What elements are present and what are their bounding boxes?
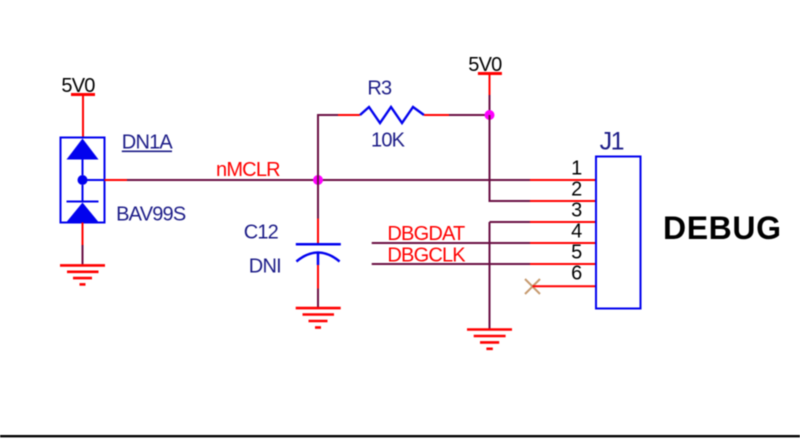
- pin stub J1 pin2: [530, 200, 596, 202]
- diode D2 bottom with cathode bar: [67, 180, 105, 222]
- wire nMCLR horizontal: [127, 179, 530, 181]
- pin stub J1 pin1: [530, 179, 596, 181]
- svg-text:1: 1: [571, 157, 582, 179]
- diode DN1A body box: [61, 138, 105, 223]
- svg-text:DBGCLK: DBGCLK: [387, 244, 466, 266]
- pin stub C12 top: [317, 219, 319, 244]
- svg-text:DBGDAT: DBGDAT: [387, 223, 465, 245]
- svg-text:DNI: DNI: [249, 255, 281, 277]
- svg-text:2: 2: [571, 178, 582, 200]
- svg-text:BAV99S: BAV99S: [116, 204, 186, 226]
- pin stub J1 pin6: [533, 285, 597, 287]
- wire junction down to C12: [317, 180, 319, 219]
- svg-text:4: 4: [571, 220, 582, 242]
- junction node nMCLR: [313, 175, 323, 185]
- wire DBGCLK: [372, 263, 530, 265]
- capacitor C12 top plate: [296, 243, 341, 246]
- diode D1 top (anode up to 5V0): [67, 139, 99, 176]
- connector J1 box: [596, 157, 641, 309]
- diode internal junction dot: [78, 175, 88, 185]
- label DN1A: [122, 131, 174, 153]
- pin stub diode bottom: [82, 223, 84, 246]
- pin stub C12 bottom: [317, 265, 319, 289]
- wire R3 right to junction: [449, 114, 490, 116]
- wire diode bottom to ground: [82, 245, 84, 264]
- svg-text:6: 6: [571, 262, 582, 284]
- ground (below diode): [60, 265, 105, 284]
- svg-text:5: 5: [571, 241, 582, 263]
- wire pin3 corner down to ground: [490, 222, 531, 329]
- svg-text:nMCLR: nMCLR: [216, 159, 280, 181]
- pin stub J1 pin3: [530, 221, 596, 223]
- wire 5V0 down to junction: [489, 95, 491, 115]
- junction node 5V0: [485, 110, 495, 120]
- pin stub J1 pin5: [530, 263, 596, 265]
- capacitor C12 bottom blue stub: [317, 254, 320, 266]
- resistor R3 zigzag: [360, 107, 424, 123]
- ground (below C12): [296, 308, 341, 327]
- svg-text:R3: R3: [367, 78, 392, 100]
- pin stub J1 pin4: [530, 242, 596, 244]
- power symbol 5V0 (right): [468, 54, 502, 95]
- capacitor C12 bottom curved plate: [296, 253, 339, 262]
- svg-text:3: 3: [571, 199, 582, 221]
- pin stub diode right: [105, 179, 128, 181]
- wire C12 to ground: [317, 289, 319, 308]
- svg-text:J1: J1: [600, 128, 624, 156]
- wire junction up to R3 row: [317, 115, 319, 181]
- pin stub R3 right: [424, 114, 449, 116]
- pin stub R3 left: [338, 114, 360, 116]
- sheet border line (bottom): [0, 435, 800, 437]
- svg-text:DEBUG: DEBUG: [663, 210, 782, 246]
- ground (below J1 pin3): [467, 330, 512, 349]
- svg-text:10K: 10K: [371, 129, 406, 151]
- wire DBGDAT: [372, 242, 530, 244]
- power symbol 5V0 (left): [61, 75, 95, 138]
- wire R3 row left: [317, 114, 338, 116]
- svg-text:C12: C12: [244, 221, 279, 243]
- no-connect X on pin6: [525, 279, 540, 294]
- wire 5V0 junction down to pin2 corner: [490, 115, 531, 201]
- svg-text:DN1A: DN1A: [122, 131, 174, 153]
